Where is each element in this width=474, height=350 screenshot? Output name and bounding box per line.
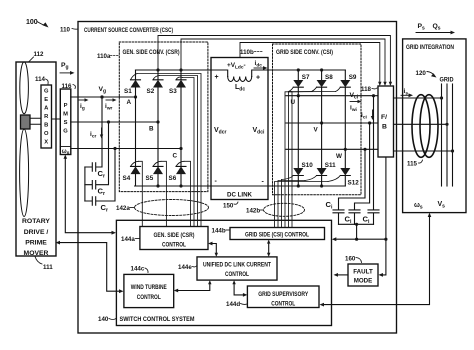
node U at S7 bbox=[297, 94, 300, 97]
gate wire S12 bbox=[275, 182, 329, 228]
CSI bottom DC bus bbox=[268, 185, 345, 187]
transformer 115 bbox=[412, 95, 438, 158]
thyristor S12 bbox=[328, 149, 359, 186]
CSI top DC bus bbox=[268, 69, 345, 71]
thyristor S2 bbox=[147, 70, 164, 122]
svg-text:S9: S9 bbox=[349, 74, 357, 81]
label icr with down arrow bbox=[90, 128, 103, 140]
svg-text:142b: 142b bbox=[246, 208, 260, 215]
svg-text:CONTROL: CONTROL bbox=[225, 271, 249, 278]
svg-text:S: S bbox=[64, 120, 68, 126]
cable bundle ellipse 142a bbox=[135, 200, 209, 216]
label 110b bbox=[240, 49, 262, 56]
gate wire S11 bbox=[278, 181, 305, 228]
svg-text:S1: S1 bbox=[124, 88, 132, 95]
svg-text:GRID SIDE (CSI) CONTROL: GRID SIDE (CSI) CONTROL bbox=[245, 232, 309, 239]
svg-text:DC LINK: DC LINK bbox=[227, 192, 252, 199]
label 110a bbox=[97, 53, 118, 60]
gate wire S9 bbox=[285, 92, 336, 228]
thyristor S5 bbox=[146, 122, 164, 186]
svg-text:+: + bbox=[215, 74, 219, 81]
svg-text:W: W bbox=[336, 153, 342, 160]
node S5 bottom bbox=[156, 184, 159, 187]
svg-text:160: 160 bbox=[345, 256, 356, 263]
svg-text:GRID INTEGRATION: GRID INTEGRATION bbox=[406, 44, 454, 51]
label iwi with arrow bbox=[350, 100, 362, 113]
capacitor Ci 1 (phase W) bbox=[326, 148, 367, 225]
node grid V bbox=[445, 123, 448, 126]
DC link bottom conductor bbox=[211, 185, 268, 187]
svg-text:MODE: MODE bbox=[354, 278, 373, 285]
node phase B at S2 bbox=[156, 120, 159, 123]
label 144e bbox=[178, 264, 197, 271]
svg-text:O: O bbox=[44, 131, 49, 137]
capacitor Cr 2 bbox=[85, 120, 110, 197]
svg-text:S3: S3 bbox=[169, 88, 177, 95]
gate wire S5 drop bbox=[161, 161, 166, 226]
gate wire S3 run and drop bbox=[183, 78, 195, 227]
node phase A at S1 bbox=[134, 95, 137, 98]
thyristor S9 bbox=[336, 70, 357, 149]
label Ps Qs with arrow bbox=[418, 23, 441, 32]
gate wire S6 drop bbox=[184, 161, 191, 226]
F/B measurement box 118 bbox=[378, 86, 394, 157]
label 150 bbox=[223, 202, 238, 210]
svg-text:110: 110 bbox=[60, 27, 71, 34]
gate wire S7 bbox=[289, 92, 293, 228]
thyristor S10 bbox=[282, 96, 314, 186]
svg-text:E: E bbox=[44, 97, 48, 103]
CSI dashed box (grid side converter 110b) bbox=[273, 44, 362, 195]
gen side (CSR) control box 144a bbox=[140, 227, 208, 250]
wire phase C from PMSG bbox=[71, 148, 181, 150]
node S7 top bbox=[297, 68, 300, 71]
wire phase U to grid bbox=[394, 97, 442, 99]
DC link box 150 bbox=[211, 58, 268, 200]
fault mode box 160 bbox=[348, 264, 378, 286]
gate wire S4 drop bbox=[139, 161, 143, 226]
svg-text:S11: S11 bbox=[325, 162, 336, 169]
svg-text:GRID: GRID bbox=[440, 77, 454, 84]
svg-text:S4: S4 bbox=[123, 175, 131, 182]
svg-text:100: 100 bbox=[26, 19, 38, 26]
svg-text:G: G bbox=[63, 129, 68, 135]
label 140 bbox=[98, 316, 116, 323]
wire phase A from PMSG bbox=[71, 96, 136, 98]
Ci common rail bbox=[339, 223, 374, 241]
node S3 top bbox=[179, 68, 182, 71]
svg-text:111: 111 bbox=[43, 264, 53, 271]
CSR dashed box (gen side converter 110a) bbox=[119, 42, 208, 192]
svg-text:CURRENT SOURCE CONVERTER (CSC): CURRENT SOURCE CONVERTER (CSC) bbox=[84, 27, 173, 34]
gearbox 114 bbox=[41, 85, 52, 148]
svg-text:X: X bbox=[44, 140, 48, 146]
turbine hub bbox=[21, 115, 31, 129]
svg-text:A: A bbox=[127, 99, 132, 106]
svg-text:S12: S12 bbox=[348, 180, 360, 187]
label 144a bbox=[121, 236, 140, 243]
svg-text:112: 112 bbox=[34, 51, 45, 58]
gate wire S1 run and drop bbox=[137, 74, 201, 227]
svg-text:CONTROL: CONTROL bbox=[162, 242, 186, 249]
sensor tap line 1 from CSR bus to F/B bbox=[158, 36, 390, 84]
thyristor S6 bbox=[169, 149, 187, 187]
svg-text:UNIFIED DC LINK CURRENT: UNIFIED DC LINK CURRENT bbox=[203, 262, 271, 269]
svg-text:CONTROL: CONTROL bbox=[271, 301, 295, 308]
svg-text:SWITCH CONTROL SYSTEM: SWITCH CONTROL SYSTEM bbox=[120, 316, 195, 323]
svg-text:144a: 144a bbox=[121, 236, 135, 243]
svg-text:144d: 144d bbox=[226, 301, 240, 308]
node Vg bbox=[99, 86, 107, 99]
node S2 top bbox=[156, 68, 159, 71]
wire phase U bbox=[286, 95, 378, 97]
svg-text:S5: S5 bbox=[146, 175, 154, 182]
label ici with down arrow bbox=[361, 110, 374, 121]
svg-text:GRID SUPERVISORY: GRID SUPERVISORY bbox=[258, 291, 309, 298]
sensor tap line 3 from DC link to F/B bbox=[240, 43, 380, 84]
node V at S8 bbox=[320, 121, 323, 124]
label Pg with arrow bbox=[60, 62, 75, 75]
capacitor Cr rail bbox=[84, 167, 86, 201]
thyristor S8 bbox=[312, 70, 334, 123]
svg-text:115: 115 bbox=[407, 161, 418, 168]
thyristor S1 bbox=[124, 70, 141, 97]
label 144d bbox=[226, 301, 247, 308]
svg-text:M: M bbox=[63, 112, 68, 118]
node grid W bbox=[451, 149, 454, 152]
wire grid integration feedback to grid supervisory control bbox=[320, 213, 432, 307]
gate wire S10 bbox=[281, 180, 283, 228]
turbine blade lower bbox=[20, 129, 29, 216]
svg-text:150: 150 bbox=[223, 203, 234, 210]
svg-text:118: 118 bbox=[361, 86, 372, 93]
wire F/B down to junction, fault mode bbox=[378, 157, 387, 277]
svg-text:S10: S10 bbox=[302, 162, 314, 169]
svg-text:GRID SIDE CONV. (CSI): GRID SIDE CONV. (CSI) bbox=[276, 49, 333, 56]
svg-text:PRIME: PRIME bbox=[25, 240, 47, 247]
shaft gearbox to PMSG bbox=[52, 118, 61, 120]
label 144b bbox=[212, 228, 230, 235]
label 144c bbox=[131, 266, 149, 273]
svg-text:S8: S8 bbox=[325, 74, 333, 81]
rotary drive / prime mover box 111 bbox=[16, 62, 56, 256]
label 142a bbox=[116, 205, 135, 212]
switch control system box 140 bbox=[116, 220, 331, 325]
label 120 bbox=[416, 70, 437, 78]
wire fault mode to switch control system bbox=[334, 273, 349, 277]
svg-text:GEN. SIDE (CSR): GEN. SIDE (CSR) bbox=[154, 232, 195, 239]
svg-text:C: C bbox=[173, 153, 178, 160]
label 118 bbox=[361, 86, 377, 93]
svg-text:110a: 110a bbox=[97, 53, 111, 60]
node W at S9 bbox=[344, 148, 347, 151]
thyristor S7 bbox=[289, 70, 310, 96]
label 115 bbox=[407, 160, 423, 168]
thyristor S3 bbox=[169, 70, 186, 149]
gate wire S8 bbox=[289, 92, 312, 228]
svg-text:110b: 110b bbox=[240, 49, 254, 56]
svg-text:142a: 142a bbox=[116, 205, 130, 212]
rotary drive text bbox=[22, 218, 50, 257]
grid supervisory control box 144d bbox=[247, 286, 319, 308]
thyristor S4 bbox=[123, 97, 141, 186]
svg-text:140: 140 bbox=[98, 316, 109, 323]
capacitor Cr 1 bbox=[85, 95, 105, 179]
svg-text:FAULT: FAULT bbox=[353, 269, 373, 276]
grid bus lines bbox=[442, 84, 453, 186]
arrowheads into F/B top bbox=[378, 82, 392, 86]
svg-text:G: G bbox=[44, 89, 49, 95]
node phase C at S3 bbox=[179, 147, 182, 150]
svg-text:144b: 144b bbox=[212, 228, 226, 235]
gate wire S2 run and drop bbox=[160, 76, 198, 227]
wire phase W bbox=[286, 148, 378, 150]
svg-text:GEN. SIDE CONV. (CSR): GEN. SIDE CONV. (CSR) bbox=[123, 49, 180, 56]
wire omega-g PMSG to switch control, arrow up into PMSG bbox=[64, 155, 117, 235]
svg-text:S2: S2 bbox=[147, 88, 155, 95]
CSC outer box (current source converter 110) bbox=[78, 22, 397, 334]
grid side (CSI) control box 144b bbox=[230, 228, 325, 240]
node S6 bottom bbox=[179, 184, 182, 187]
sensor tap line 2 from CSR bus to F/B bbox=[181, 39, 385, 84]
link wind turbine control to unified control bbox=[174, 280, 212, 292]
svg-text:MOVER: MOVER bbox=[24, 250, 49, 257]
capacitor Ci 3 (phase U) bbox=[363, 94, 380, 225]
svg-text:ωg: ωg bbox=[62, 149, 70, 155]
svg-text:120: 120 bbox=[416, 70, 427, 77]
capacitor Ci 2 (phase V) bbox=[345, 121, 372, 225]
label 116 bbox=[62, 83, 76, 90]
label is with arrow bbox=[401, 88, 413, 97]
svg-text:114: 114 bbox=[35, 76, 46, 83]
node S10 bottom bbox=[297, 184, 300, 187]
svg-text:116: 116 bbox=[62, 83, 73, 90]
label 114 bbox=[35, 76, 48, 84]
svg-text:P: P bbox=[64, 103, 68, 109]
labels omega-s and Vs bbox=[414, 201, 445, 211]
wire wind turbine control to rotary drive bbox=[56, 241, 124, 293]
unified dc link current control box 144e bbox=[197, 257, 277, 280]
label 112 bbox=[29, 51, 44, 62]
wire phase V bbox=[286, 122, 378, 124]
label 110 bbox=[60, 27, 78, 34]
svg-text:144c: 144c bbox=[131, 266, 145, 273]
turbine blade upper 112 bbox=[20, 62, 29, 114]
svg-text:+: + bbox=[256, 75, 260, 82]
grid integration box 120 bbox=[403, 39, 466, 213]
svg-text:F/: F/ bbox=[381, 114, 387, 121]
wind turbine control box 144c bbox=[124, 274, 174, 307]
label iwr with arrow bbox=[105, 98, 117, 111]
svg-text:144e: 144e bbox=[178, 264, 192, 271]
label idc with arrow bbox=[254, 60, 268, 70]
svg-text:B: B bbox=[44, 123, 48, 129]
svg-text:U: U bbox=[291, 99, 296, 106]
CSR top DC bus bbox=[136, 69, 212, 71]
svg-text:B: B bbox=[149, 126, 154, 133]
wire phase B from PMSG bbox=[71, 121, 158, 123]
cable bundle ellipse 142b bbox=[264, 203, 305, 216]
label 142b bbox=[246, 208, 264, 215]
svg-text:CONTROL: CONTROL bbox=[137, 294, 161, 301]
capacitor Cr 3 bbox=[85, 147, 117, 214]
node S11 bottom bbox=[320, 184, 323, 187]
figure reference label 100 bbox=[26, 19, 49, 28]
link grid supervisory control to unified control bbox=[232, 280, 247, 297]
svg-text:B: B bbox=[382, 124, 387, 131]
svg-text:S7: S7 bbox=[302, 74, 310, 81]
thyristor S11 bbox=[305, 123, 336, 186]
label ig with arrow bbox=[79, 98, 89, 111]
CSR bottom DC bus bbox=[135, 185, 211, 187]
label 160 bbox=[345, 256, 362, 263]
label 111 bbox=[35, 257, 53, 272]
svg-text:DRIVE /: DRIVE / bbox=[24, 229, 49, 236]
node S8 top bbox=[320, 68, 323, 71]
wire junction to switch control system (left arrow) bbox=[332, 237, 386, 241]
wire phase W to grid bbox=[394, 150, 453, 152]
svg-text:ROTARY: ROTARY bbox=[22, 218, 50, 225]
wire phase V to grid bbox=[394, 123, 448, 125]
svg-text:S6: S6 bbox=[169, 175, 177, 182]
PMSG box 116 bbox=[60, 89, 71, 155]
svg-text:WIND TURBINE: WIND TURBINE bbox=[131, 284, 167, 291]
node grid U bbox=[440, 96, 443, 99]
shaft hub to gearbox bbox=[30, 118, 41, 124]
DC link top conductor with inductor Ldc bbox=[211, 70, 268, 82]
link CSI control to unified control (double arrow) bbox=[267, 240, 270, 257]
link CSR control to unified control bbox=[208, 242, 218, 257]
